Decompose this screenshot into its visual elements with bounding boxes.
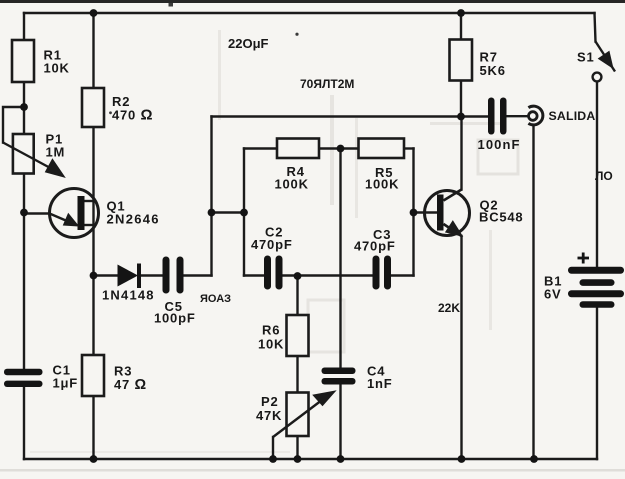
svg-text:R6: R6 <box>262 323 280 338</box>
resistor R7 <box>450 40 473 81</box>
wire feedback top horizontal <box>212 115 489 117</box>
wire output node down to Q2 collector <box>460 117 462 190</box>
junction node C2/C3 R6 tap <box>294 272 302 280</box>
border frame (decorative) <box>0 0 625 3</box>
wire Q2 base lead <box>414 211 438 213</box>
wire R4/R5 junction down through C4 <box>339 149 341 368</box>
transistor Q2 circle <box>425 191 470 236</box>
wire R4 to R5 <box>319 147 359 149</box>
wire SALIDA shield to bottom rail <box>532 126 534 460</box>
wire Q2 emitter to bottom rail <box>460 236 462 459</box>
svg-text:ЯОАЗ: ЯОАЗ <box>200 293 231 305</box>
wire C4 to bottom rail <box>339 385 341 460</box>
transistor Q2 collector lead <box>444 190 462 201</box>
junction node output R7 <box>457 113 465 121</box>
junction node rail SALIDA shield <box>530 455 538 463</box>
wire diode cathode to C5 <box>141 274 163 276</box>
svg-text:2N2646: 2N2646 <box>107 212 160 227</box>
wire left rail upper <box>23 13 25 40</box>
resistor R2 <box>82 88 104 127</box>
wire Q1 emitter lead <box>24 212 50 214</box>
transistor Q2 emitter arrow <box>444 223 462 237</box>
resistor R5 <box>359 139 405 159</box>
transistor Q1 base bar <box>78 196 85 230</box>
wire R6 to P2 <box>296 356 298 393</box>
svg-text:1M: 1M <box>46 145 66 160</box>
junction node Q2 base <box>410 209 418 217</box>
SALIDA jack outer ring <box>528 106 542 125</box>
battery B1 plates <box>568 267 624 308</box>
wire twin-T right vertical <box>412 149 414 276</box>
wire S1 to battery <box>596 82 598 268</box>
svg-text:1μF: 1μF <box>53 376 79 391</box>
wire R1 to P1 <box>23 82 25 134</box>
junction node diode/R3 <box>90 272 98 280</box>
switch S1 contact <box>593 73 602 82</box>
switch S1 blade and arrow <box>596 42 616 72</box>
junction node R4/R5 <box>337 145 345 153</box>
transistor Q2 base bar <box>437 195 444 231</box>
svg-text:100K: 100K <box>275 177 309 192</box>
wire bottom rail <box>24 458 597 460</box>
svg-text:100pF: 100pF <box>154 311 196 326</box>
capacitor 100nF plates <box>488 98 507 135</box>
junction node rail P2 wiper <box>269 455 277 463</box>
resistor R6 <box>287 315 309 356</box>
label R1 value <box>44 48 596 424</box>
capacitor C4 plates <box>322 368 356 385</box>
capacitor C2 plates <box>264 256 283 290</box>
svg-text:100K: 100K <box>365 177 399 192</box>
svg-text:47K: 47K <box>256 408 282 423</box>
svg-text:S1: S1 <box>577 50 595 65</box>
resistor R4 <box>277 139 319 159</box>
wire R5 to right vertical <box>404 147 414 149</box>
wire R2 branch top <box>92 13 94 88</box>
potentiometer P1 body <box>13 134 34 174</box>
wire diode junction to R3 <box>92 276 94 356</box>
svg-text:1nF: 1nF <box>367 376 393 391</box>
junction node top rail / R2 <box>90 9 98 17</box>
junction node feedback riser <box>208 209 216 217</box>
diode D1 1N4148 <box>118 265 139 287</box>
svg-text:70ЯЛT2M: 70ЯЛT2M <box>300 77 354 91</box>
svg-text:5K6: 5K6 <box>480 63 506 78</box>
wire battery to bottom rail <box>596 308 598 460</box>
junction node twin-T left <box>240 209 248 217</box>
wire R2 to Q1 and diode junction <box>92 127 94 276</box>
wire R6 branch top <box>296 276 298 316</box>
transistor Q1 circle <box>50 189 99 238</box>
junction node rail R3 <box>90 455 98 463</box>
svg-text:P2: P2 <box>261 394 279 409</box>
junction node Q1 emitter <box>20 209 28 217</box>
junction node rail Q2 emitter <box>458 455 466 463</box>
svg-text:10K: 10K <box>258 337 284 352</box>
svg-text:6V: 6V <box>544 287 562 302</box>
svg-text:10K: 10K <box>44 61 70 76</box>
junction node top rail / R7 <box>457 9 465 17</box>
wire P2 wiper tail <box>272 437 274 459</box>
resistor R1 <box>12 40 34 82</box>
wire feedback riser x=211.5 <box>210 117 212 276</box>
svg-text:470pF: 470pF <box>251 237 293 252</box>
svg-text:470pF: 470pF <box>354 239 396 254</box>
wire P2 to bottom rail <box>296 436 298 459</box>
svg-text:1N4148: 1N4148 <box>102 288 155 303</box>
wire twin-T bottom left segment <box>244 274 264 276</box>
svg-text:47 Ω: 47 Ω <box>114 377 147 393</box>
svg-text:22K: 22K <box>438 301 460 315</box>
wire C1 to bottom rail <box>23 387 25 459</box>
wire S1 from top rail <box>595 13 596 42</box>
wire 100nF to SALIDA <box>506 115 528 117</box>
junction node rail P2 <box>294 455 302 463</box>
transistor Q1 base leads <box>85 201 96 225</box>
wire diode anode <box>94 274 119 276</box>
wire R3 to bottom rail <box>92 396 94 459</box>
wire C2 to C3 segment <box>283 274 373 276</box>
wire node to twin-T left <box>212 211 245 213</box>
junction node rail C4 <box>337 455 345 463</box>
capacitor C5 plates <box>163 257 184 294</box>
potentiometer P1 arrow <box>3 143 63 177</box>
wire P1 to C1 <box>23 174 25 370</box>
wire C5 to riser <box>184 274 212 276</box>
wire R7 top <box>460 13 462 40</box>
svg-text:470 Ω: 470 Ω <box>112 107 153 124</box>
junction node P1 top <box>20 103 28 111</box>
potentiometer P2 body <box>287 393 309 437</box>
potentiometer P2 arrow <box>273 392 334 437</box>
wire twin-T top left to R4 <box>244 147 277 149</box>
svg-text:22OμF: 22OμF <box>228 36 269 51</box>
capacitor C3 plates <box>373 256 392 290</box>
wire R7 bottom to output node <box>460 81 462 117</box>
wire C3 to right vertical <box>391 274 414 276</box>
wire top rail <box>24 12 595 14</box>
transistor Q1 emitter arrow <box>50 214 77 226</box>
svg-text:BC548: BC548 <box>479 210 523 225</box>
capacitor C1 plates <box>4 369 43 387</box>
SALIDA jack inner pin <box>529 112 538 121</box>
svg-text:100nF: 100nF <box>478 137 521 152</box>
wire twin-T left vertical <box>243 149 245 276</box>
wire P1 wiper loop <box>3 107 24 143</box>
resistor R3 <box>82 355 104 396</box>
battery plus sign <box>578 253 590 264</box>
svg-text:SALIDA: SALIDA <box>549 109 596 123</box>
